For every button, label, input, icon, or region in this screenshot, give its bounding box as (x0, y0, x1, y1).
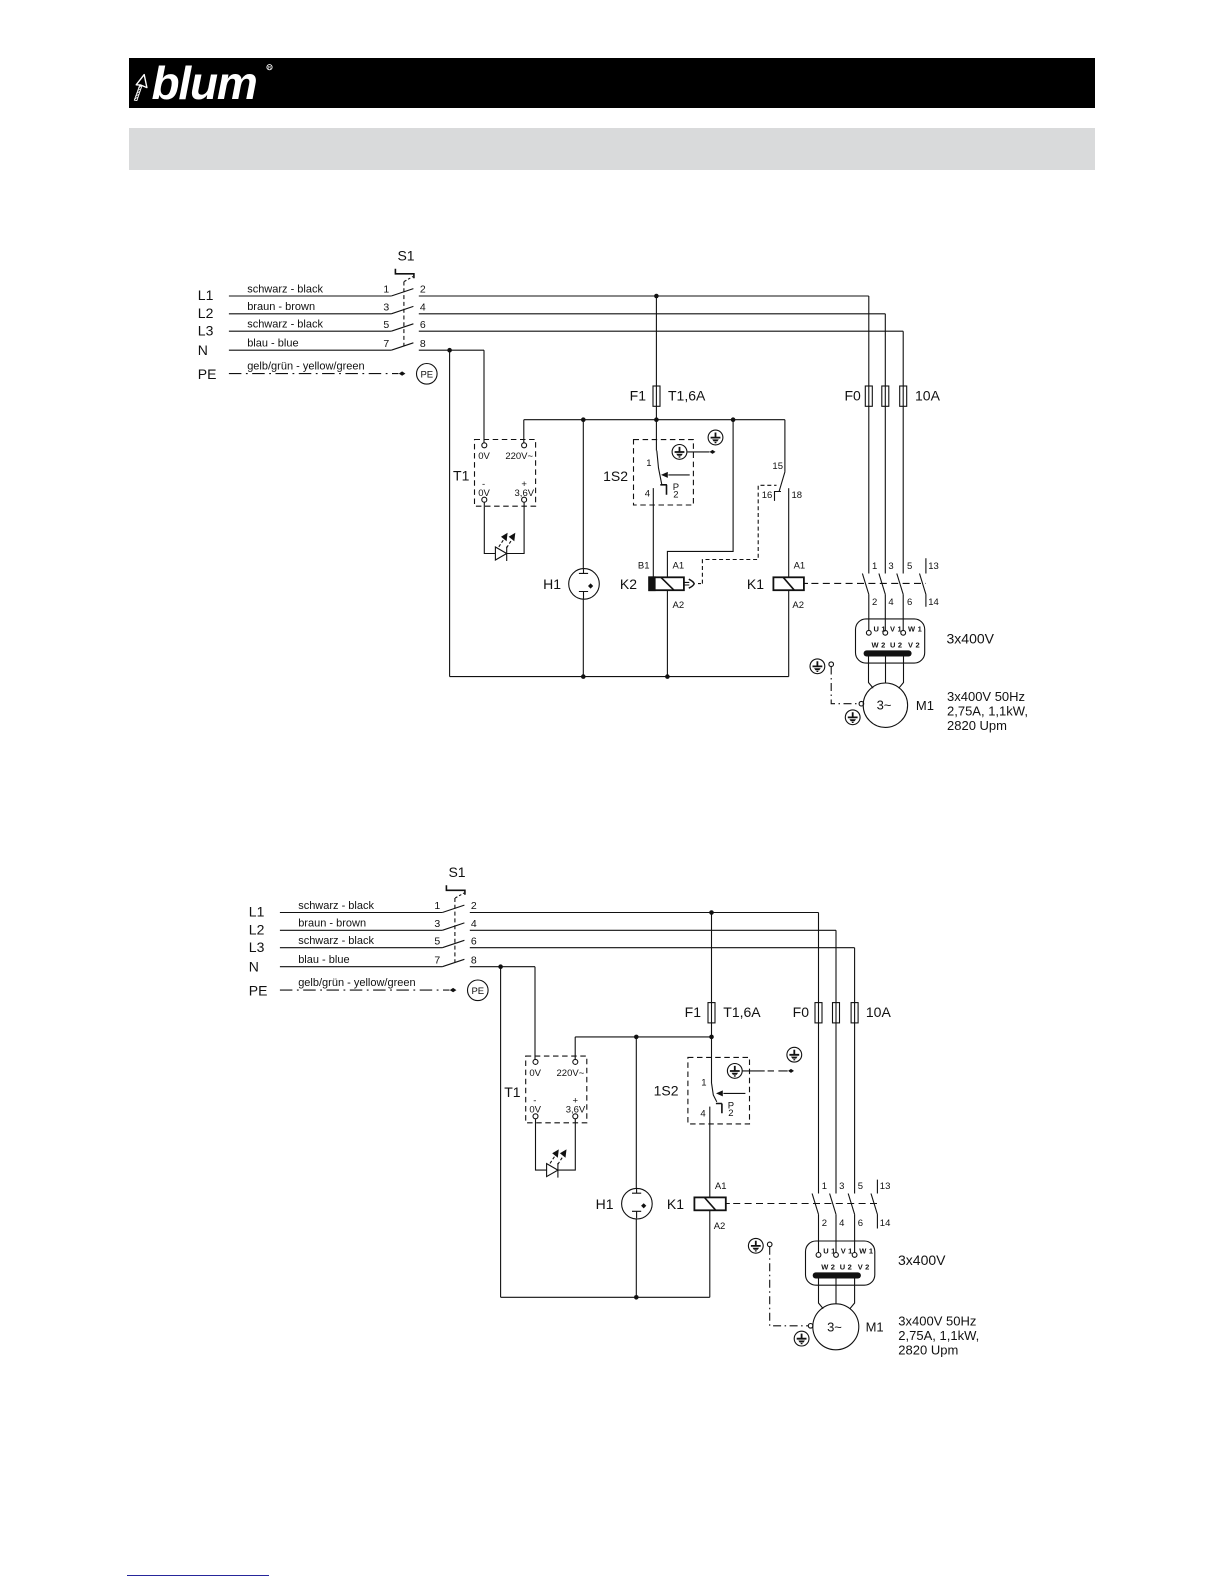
wire L2 to contact 3 (884, 314, 886, 574)
svg-text:14: 14 (880, 1218, 891, 1229)
svg-text:15: 15 (772, 461, 783, 472)
svg-text:PE: PE (198, 366, 217, 382)
svg-text:4: 4 (888, 597, 893, 608)
svg-text:N: N (249, 959, 259, 975)
wire L1 out (419, 295, 869, 297)
svg-text:5: 5 (434, 935, 440, 947)
svg-text:PE: PE (420, 369, 433, 380)
junction L1/F1 (2) (709, 910, 714, 915)
contact 1-2 blade (862, 574, 868, 595)
svg-text:A1: A1 (673, 561, 685, 572)
svg-text:W 1: W 1 (908, 624, 922, 633)
wire F1 drop (655, 296, 657, 420)
wire earth to PE diamond (2) (742, 1070, 787, 1072)
svg-text:13: 13 (880, 1181, 891, 1192)
1S2 actuation arrow (2) (723, 1092, 745, 1094)
svg-text:U 1: U 1 (874, 624, 886, 633)
svg-text:2: 2 (471, 900, 477, 912)
junction bus/H1 bottom (2) (634, 1295, 639, 1300)
wire contact 2 to U1 (868, 594, 870, 630)
wire L1 to contact 1 (2) (818, 913, 820, 1194)
svg-text:220V~: 220V~ (557, 1068, 585, 1079)
terminal V1 (2) (834, 1253, 839, 1258)
fuse F0-2 (2) (833, 1003, 840, 1023)
svg-text:2820 Upm: 2820 Upm (947, 718, 1007, 733)
junction bus/H1 (581, 417, 586, 422)
LED emission arrows (499, 540, 504, 547)
svg-text:1S2: 1S2 (654, 1083, 679, 1099)
LED D1 triangle (495, 547, 506, 560)
svg-text:1: 1 (383, 284, 389, 296)
wire box to motor mid (2) (835, 1279, 837, 1304)
wire control bus (2) (575, 1036, 711, 1038)
svg-text:K1: K1 (747, 576, 764, 592)
switch S1 contact 7-8 blade (391, 343, 413, 350)
switch S1 contact 3-4 blade (391, 306, 413, 313)
svg-text:1: 1 (434, 900, 440, 912)
wire T1 secondary left (484, 502, 495, 553)
wire L1 in (229, 295, 391, 297)
svg-text:3x400V: 3x400V (947, 630, 995, 646)
wire T1 secondary right (507, 502, 524, 553)
svg-text:18: 18 (792, 490, 803, 501)
1S2 contact blade (657, 451, 662, 485)
svg-text:14: 14 (928, 597, 939, 608)
wire N down left rail (2) (500, 967, 502, 1298)
LED emission arrows (2) (550, 1156, 555, 1163)
svg-text:4: 4 (645, 488, 650, 499)
contact 16 jaw (775, 492, 782, 501)
wire L2 out (419, 313, 886, 315)
PE diamond near 1S2 (710, 450, 716, 454)
svg-text:8: 8 (471, 954, 477, 966)
svg-text:2820 Upm: 2820 Upm (898, 1342, 958, 1357)
svg-text:6: 6 (858, 1218, 863, 1229)
fuse F0-1 (865, 386, 872, 406)
wire bus to H1 (582, 420, 584, 569)
T1 terminal 0V secondary (2) (533, 1114, 538, 1119)
wire contact 6 to W1 (902, 594, 904, 630)
mechanical link K2 to contact 15-18 (dashed) (698, 485, 777, 583)
wire PE (dash-dot) (229, 373, 399, 375)
svg-text:5: 5 (858, 1181, 863, 1192)
earth symbol near 1S2 (672, 445, 687, 460)
contactor K1 coil (773, 577, 804, 590)
svg-text:4: 4 (839, 1218, 844, 1229)
svg-text:PE: PE (471, 986, 484, 997)
svg-text:T1: T1 (453, 468, 470, 484)
wire L2 in (2) (280, 929, 442, 931)
transformer T1 box (2, dashed) (526, 1056, 587, 1123)
junction bus/K2-A1 (731, 417, 736, 422)
motor M1 (2) (813, 1304, 859, 1350)
svg-text:3x400V 50Hz: 3x400V 50Hz (898, 1313, 976, 1328)
wire L2 to contact 3 (2) (835, 930, 837, 1193)
svg-text:blau - blue: blau - blue (298, 954, 349, 966)
junction N (447, 348, 452, 353)
svg-text:F1: F1 (685, 1004, 702, 1020)
svg-text:4: 4 (471, 918, 477, 930)
wire 18 to K1 A1 (788, 488, 790, 578)
svg-text:blau - blue: blau - blue (247, 338, 298, 350)
wire bus to T1 220V (2) (574, 1037, 576, 1060)
wire L1 out (2) (470, 912, 819, 914)
svg-text:5: 5 (383, 319, 389, 331)
switch S1 bracket (395, 269, 414, 279)
T1 terminal 220V primary (522, 443, 527, 448)
fuse F0-3 (2) (851, 1003, 858, 1023)
wire H1 to bottom bus (582, 599, 584, 677)
wire PE (2, dash-dot) (280, 989, 450, 991)
svg-text:schwarz - black: schwarz - black (247, 283, 323, 295)
1S2 contact blade (2) (712, 1084, 717, 1102)
svg-text:7: 7 (383, 338, 389, 350)
1S2 actuation arrow (668, 474, 689, 476)
svg-text:F0: F0 (844, 388, 861, 404)
svg-text:4: 4 (700, 1108, 705, 1119)
svg-text:M1: M1 (916, 698, 934, 713)
wire K2 A2 to bottom bus (666, 590, 668, 676)
wire bus to K2 A1 (667, 420, 733, 577)
svg-text:3: 3 (383, 302, 389, 314)
T1 terminal 0V primary (2) (533, 1059, 538, 1064)
motor M1 (863, 683, 907, 727)
1S2 fixed contact jaw (660, 485, 667, 495)
wire N to T1 0V (483, 350, 485, 443)
svg-text:schwarz - black: schwarz - black (298, 935, 374, 947)
wire L2 in (229, 313, 391, 315)
svg-text:PE: PE (249, 983, 268, 999)
switch S1 contact 1-2 blade (391, 289, 413, 296)
junction bus/K2 A2 (665, 674, 670, 679)
svg-text:schwarz - black: schwarz - black (298, 900, 374, 912)
fuse F0-2 (882, 386, 889, 406)
svg-text:7: 7 (434, 954, 440, 966)
wire box to motor mid (885, 657, 887, 684)
earth symbol PE motor (2) (748, 1238, 763, 1253)
lamp H1 (2, glow lamp) (622, 1188, 653, 1219)
svg-text:2: 2 (420, 284, 426, 296)
earth symbol above 1S2 (2) (787, 1047, 802, 1062)
svg-text:K2: K2 (620, 576, 637, 592)
svg-text:N: N (198, 342, 208, 358)
svg-text:U 2: U 2 (840, 1263, 852, 1272)
svg-text:L1: L1 (249, 904, 265, 920)
relay K2 coil (649, 577, 684, 590)
svg-text:U 2: U 2 (890, 640, 902, 649)
lamp H1 (glow lamp) (569, 569, 600, 600)
svg-text:2,75A, 1,1kW,: 2,75A, 1,1kW, (898, 1328, 979, 1343)
svg-text:1: 1 (872, 561, 877, 572)
wire box to motor right (899, 657, 904, 689)
wire PE to motor frame (dash-dot) (831, 667, 859, 704)
svg-text:6: 6 (420, 319, 426, 331)
wire K1 A2 to bottom bus (2) (709, 1210, 711, 1297)
wire 1S2 pin4 to K2 B1 (652, 488, 654, 577)
K2 release symbol (684, 582, 689, 585)
motor frame terminal (2) (808, 1324, 813, 1329)
motor frame terminal (859, 701, 864, 706)
svg-text:3x400V 50Hz: 3x400V 50Hz (947, 689, 1025, 704)
LED D1 cathode bar (2) (557, 1163, 559, 1178)
svg-text:3: 3 (434, 918, 440, 930)
T1 terminal 3,6V secondary (522, 497, 527, 502)
wire bus to H1 (2) (635, 1037, 637, 1189)
svg-text:A2: A2 (792, 600, 804, 611)
wire L3 out (419, 330, 903, 332)
wire T1 secondary right (2) (558, 1119, 575, 1170)
svg-text:T1,6A: T1,6A (668, 388, 706, 404)
wire L3 in (229, 330, 391, 332)
svg-text:M1: M1 (866, 1320, 884, 1335)
PE terminal circle (2) (468, 980, 489, 1001)
wire box to motor left (2) (819, 1279, 824, 1309)
junction bus/F1 (2) (709, 1035, 714, 1040)
wire K1 A2 to bottom bus (788, 590, 790, 676)
wire box to motor left (869, 657, 874, 689)
wire L3 in (2) (280, 947, 442, 949)
wire bus to T1 220V (523, 420, 525, 443)
terminal link bar (864, 650, 912, 656)
header black bar with blum logo (129, 58, 1095, 108)
earth symbol above 1S2 (708, 430, 723, 445)
svg-text:3x400V: 3x400V (898, 1252, 946, 1268)
svg-text:10A: 10A (866, 1004, 892, 1020)
svg-text:B1: B1 (638, 561, 650, 572)
footer rule (127, 1575, 269, 1577)
earth symbol near 1S2 (2) (727, 1064, 742, 1079)
svg-text:A1: A1 (715, 1181, 727, 1192)
svg-text:L2: L2 (198, 305, 214, 321)
contact 5-6 blade (2) (848, 1194, 854, 1215)
svg-text:0V: 0V (529, 1068, 541, 1079)
svg-text:L2: L2 (249, 922, 265, 938)
switch S1 mechanical link (2, dashed) (455, 893, 464, 898)
wire contact 4 to V1 (884, 594, 886, 630)
terminal link bar (2) (813, 1272, 861, 1278)
switch S1 contact 5-6 blade (391, 324, 413, 331)
wire bus to 1S2 pin1 (2) (711, 1037, 713, 1084)
T1 terminal 0V secondary (482, 497, 487, 502)
svg-text:8: 8 (420, 338, 426, 350)
svg-text:1: 1 (701, 1077, 706, 1088)
pushbutton 1S2 box (2, dashed) (688, 1057, 750, 1124)
contact 5-6 blade (897, 574, 903, 595)
svg-text:T1,6A: T1,6A (723, 1004, 761, 1020)
aux contact 13-14 (2) (871, 1180, 877, 1229)
terminal W1 (901, 630, 906, 635)
wire bottom bus (2) (501, 1296, 710, 1298)
PE terminal circle (417, 364, 438, 385)
svg-text:L3: L3 (198, 323, 214, 339)
T1 terminal 220V primary (2) (573, 1059, 578, 1064)
gray title band (129, 128, 1095, 170)
svg-text:H1: H1 (543, 576, 561, 592)
earth symbol motor frame (2) (794, 1331, 809, 1346)
terminal U1 (2) (816, 1253, 821, 1258)
svg-text:braun - brown: braun - brown (247, 301, 315, 313)
blum logo registered mark (267, 65, 272, 70)
svg-text:6: 6 (471, 935, 477, 947)
wire contact 4 to V1 (2) (835, 1214, 837, 1252)
wire T1 secondary left (2) (536, 1119, 547, 1170)
junction L1/F1 (654, 294, 659, 299)
wire L3 to contact 5 (902, 331, 904, 573)
PE terminal circle small (2) (767, 1242, 772, 1247)
junction bus/H1 (2) (634, 1035, 639, 1040)
svg-text:L1: L1 (198, 287, 214, 303)
junction N (2) (498, 964, 503, 969)
svg-text:2: 2 (673, 490, 678, 501)
svg-text:0V: 0V (478, 451, 490, 462)
LED D1 triangle (2) (547, 1164, 558, 1177)
PE diamond near 1S2 (2) (788, 1069, 794, 1073)
fuse F0-1 (2) (815, 1003, 822, 1023)
switch S1 contact 7-8 blade (2) (442, 959, 464, 966)
1S2 fixed contact jaw (2) (716, 1104, 722, 1114)
junction bus/F1 (654, 417, 659, 422)
svg-text:K1: K1 (667, 1196, 684, 1212)
svg-text:5: 5 (907, 561, 912, 572)
svg-text:schwarz - black: schwarz - black (247, 319, 323, 331)
fuse F0-3 (900, 386, 907, 406)
switch S1 contact 3-4 blade (2) (442, 923, 464, 930)
wire box to motor right (2) (850, 1279, 855, 1309)
svg-text:A1: A1 (794, 561, 806, 572)
wire N down (left rail) (449, 350, 451, 676)
svg-text:F1: F1 (630, 388, 647, 404)
wire L1 to contact 1 (868, 296, 870, 574)
switch S1 contact 1-2 blade (2) (442, 905, 464, 912)
terminal U1 (866, 630, 871, 635)
aux contact 13-14 (920, 558, 926, 606)
contact 3-4 blade (879, 574, 885, 595)
contact 3-4 blade (2) (830, 1194, 836, 1215)
wire L3 out (2) (470, 947, 855, 949)
mechanical link K1 to main contacts (2, dashed) (726, 1203, 878, 1205)
svg-text:2: 2 (822, 1218, 827, 1229)
svg-text:3~: 3~ (827, 1319, 842, 1334)
earth symbol PE motor (810, 659, 825, 674)
wire F1 drop (2) (711, 913, 713, 1037)
PE arrow diamond (399, 371, 406, 375)
switch S1 contact 5-6 blade (2) (442, 940, 464, 947)
T1 terminal 0V primary (482, 443, 487, 448)
wire control bus (524, 419, 785, 421)
earth symbol motor frame (845, 710, 860, 725)
svg-text:1: 1 (646, 458, 651, 469)
wire bus to 1S2 pin1 (655, 420, 657, 451)
svg-text:W 1: W 1 (859, 1247, 873, 1256)
svg-text:A2: A2 (714, 1221, 726, 1232)
motor terminal box (856, 619, 925, 663)
svg-text:H1: H1 (596, 1196, 614, 1212)
switch S1 bracket (2) (446, 885, 465, 895)
svg-text:W 2: W 2 (872, 640, 886, 649)
wire L1 in (2) (280, 912, 442, 914)
svg-text:A2: A2 (673, 600, 685, 611)
svg-text:gelb/grün - yellow/green: gelb/grün - yellow/green (298, 977, 415, 989)
wire contact 6 to W1 (2) (854, 1214, 856, 1252)
svg-text:13: 13 (928, 561, 939, 572)
svg-text:braun - brown: braun - brown (298, 918, 366, 930)
svg-text:3: 3 (839, 1181, 844, 1192)
svg-text:10A: 10A (915, 388, 941, 404)
PE arrow diamond (2) (450, 988, 457, 992)
contact 15-18 blade (779, 472, 785, 491)
svg-text:3: 3 (888, 561, 893, 572)
svg-text:2: 2 (872, 597, 877, 608)
terminal W1 (2) (852, 1253, 857, 1258)
mechanical link K1 to main contacts (dashed) (804, 582, 926, 584)
wire H1 to bottom bus (2) (635, 1218, 637, 1297)
wire earth to PE diamond (687, 451, 709, 453)
wire L3 to contact 5 (2) (854, 948, 856, 1194)
svg-text:220V~: 220V~ (505, 451, 533, 462)
svg-text:6: 6 (907, 597, 912, 608)
svg-text:4: 4 (420, 302, 426, 314)
svg-text:16: 16 (762, 490, 773, 501)
wire N to T1 0V (2) (534, 967, 536, 1060)
svg-text:2: 2 (728, 1108, 733, 1119)
svg-text:2,75A, 1,1kW,: 2,75A, 1,1kW, (947, 703, 1028, 718)
wire L2 out (2) (470, 929, 836, 931)
LED D1 cathode bar (506, 547, 508, 562)
wire N in (2) (280, 966, 442, 968)
svg-text:V 1: V 1 (841, 1247, 853, 1256)
motor terminal box (2) (806, 1241, 875, 1285)
svg-text:W 2: W 2 (821, 1263, 835, 1272)
T1 terminal 3,6V secondary (2) (573, 1114, 578, 1119)
switch S1 mechanical link (dashed) (404, 277, 413, 282)
contactor K1 coil (2) (694, 1197, 725, 1210)
svg-text:T1: T1 (504, 1084, 521, 1100)
svg-text:L3: L3 (249, 939, 265, 955)
terminal V1 (883, 630, 888, 635)
PE terminal circle small (829, 662, 834, 667)
wire PE to motor frame (2, dash-dot) (770, 1247, 809, 1326)
wire bottom bus (450, 676, 789, 678)
blum logo arrow (134, 75, 147, 101)
wire 1S2 pin4 to K1 A1 (2) (709, 1107, 711, 1198)
svg-text:F0: F0 (793, 1004, 810, 1020)
wire N in (229, 349, 391, 351)
svg-text:1: 1 (822, 1181, 827, 1192)
svg-text:V 2: V 2 (858, 1263, 870, 1272)
svg-text:V 2: V 2 (908, 640, 920, 649)
contact 1-2 blade (2) (812, 1194, 818, 1215)
transformer T1 box (dashed) (475, 440, 536, 507)
svg-text:gelb/grün - yellow/green: gelb/grün - yellow/green (247, 361, 364, 373)
svg-text:S1: S1 (448, 864, 465, 880)
wire contact 2 to U1 (2) (818, 1214, 820, 1252)
svg-text:S1: S1 (397, 248, 414, 264)
svg-text:V 1: V 1 (890, 624, 902, 633)
pushbutton 1S2 box (dashed) (634, 440, 694, 505)
wire N out (2) (470, 966, 535, 968)
svg-text:3~: 3~ (877, 698, 892, 713)
wire bus corner to contact 15 (784, 420, 786, 472)
junction bus/H1 bottom (581, 674, 586, 679)
wire N out (419, 349, 484, 351)
svg-text:1S2: 1S2 (603, 468, 628, 484)
